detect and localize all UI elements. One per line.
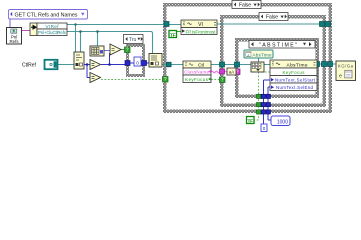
- wire more specific class to AbsTime node: [264, 64, 270, 66]
- svg-text:NumText.SelEnd: NumText.SelEnd: [276, 85, 314, 90]
- svg-text:0: 0: [136, 61, 139, 66]
- junction blue: [108, 63, 111, 66]
- tunnel ctl ref case3 left: [235, 62, 240, 67]
- wire Ctl ref out across case2 to case3: [211, 64, 251, 66]
- numeric constant 1000: [271, 116, 290, 126]
- ring label GET CTL Refs and Names: [9, 10, 88, 20]
- index array node: [149, 54, 162, 68]
- svg-text:AbsTime: AbsTime: [287, 62, 308, 68]
- wire pink ClassName string: [211, 71, 238, 73]
- subVI icon right: [336, 61, 356, 81]
- typecast node: [74, 52, 84, 69]
- svg-text:False: False: [266, 15, 278, 21]
- wire blue typecast out to T2: [84, 64, 90, 66]
- case structure 2 inner False frame: [220, 15, 326, 107]
- svg-text:CtlRef: CtlRef: [22, 63, 37, 69]
- svg-text:GET CTL Refs and Names: GET CTL Refs and Names: [15, 12, 78, 18]
- svg-text:TF: TF: [248, 118, 254, 124]
- svg-text:TF: TF: [170, 32, 176, 38]
- svg-text:VIRef: VIRef: [46, 24, 60, 29]
- wire index node to Ctl property node: [162, 64, 183, 66]
- svg-text:Pnl+CluCtlRefs: Pnl+CluCtlRefs: [38, 30, 67, 35]
- case1 label False: [232, 1, 261, 9]
- svg-text:FP.IsFrontmost: FP.IsFrontmost: [186, 29, 217, 34]
- selector tunnel case3 magenta: [235, 69, 241, 75]
- tunnel blue case4 right: [142, 61, 147, 66]
- selector tunnel case2 green: [220, 77, 226, 83]
- wire green dashed T3 to case1 selector: [101, 79, 163, 81]
- wire green KeyFocus out to case2 selector: [211, 79, 220, 81]
- tunnel blue2 case2 bottom: [266, 103, 270, 107]
- icon1 array node: [90, 46, 104, 56]
- case structure 3 ABSTIME frame: [235, 38, 319, 98]
- numeric constant inside case4: [134, 57, 141, 66]
- case structure 1 outer False frame: [163, 3, 332, 113]
- boolean constant TF top: [169, 31, 177, 39]
- svg-text:0: 0: [263, 126, 266, 131]
- to upper case icon: [227, 68, 236, 75]
- subVI Pnl Refs: [7, 28, 22, 45]
- wire VIRef teal top: [67, 25, 181, 53]
- numeric constant 0 small: [261, 124, 267, 132]
- wire blue down to T3: [87, 65, 90, 78]
- svg-text:NumText.SelStart: NumText.SelStart: [275, 77, 316, 82]
- tunnel blue2 case3 bottom: [266, 94, 270, 98]
- wire Pnl CluCtlRefs array teal: [67, 32, 153, 54]
- wire violet icon1 to T1: [104, 50, 111, 52]
- wire AbsTime ref out to subVI: [317, 63, 336, 65]
- junction on array wire: [96, 30, 99, 33]
- tunnel VI ref case2 right: [320, 22, 325, 27]
- tunnel blue2 case1 bottom: [266, 110, 270, 114]
- case4 label True: [124, 35, 144, 44]
- svg-text:e: e: [339, 74, 342, 80]
- junction on array wire: [79, 30, 82, 33]
- tunnel green case3 bottom: [257, 94, 261, 98]
- svg-text:AbsTime: AbsTime: [253, 53, 272, 58]
- svg-text:KeyFocus: KeyFocus: [283, 70, 306, 75]
- tunnel AbsTime ref case3 right: [315, 62, 320, 67]
- svg-text:KeyFocus: KeyFocus: [185, 77, 209, 82]
- tunnel AbsTime ref case1 right: [328, 62, 333, 67]
- tunnel green case1 bottom: [257, 110, 261, 114]
- tunnel pink case2 left: [220, 69, 225, 74]
- tunnel VI ref case1 right: [326, 22, 331, 27]
- svg-text:?: ?: [164, 77, 167, 83]
- tunnel ctl ref case1 left: [167, 62, 172, 67]
- tunnel blue1 case1 bottom: [261, 110, 265, 114]
- to more specific class node: [251, 62, 264, 72]
- tunnel blue case4 left: [125, 61, 130, 66]
- svg-text:KG/Ga: KG/Ga: [338, 64, 354, 69]
- wire green TF to FP.IsFrontmost: [177, 31, 182, 33]
- wire T1 out to selector: [121, 49, 125, 51]
- wire green dashed KeyFocus write chain bottom: [254, 72, 270, 120]
- svg-text:1000: 1000: [277, 119, 288, 125]
- tunnel blue1 case3 bottom: [261, 94, 265, 98]
- comparator T2: [90, 60, 101, 70]
- selector tunnel case1 green: [163, 77, 169, 83]
- svg-text:Refs: Refs: [9, 39, 19, 44]
- comparator T3: [90, 73, 101, 83]
- boolean constant TF bottom: [247, 117, 255, 125]
- case2 label False: [259, 13, 288, 21]
- wire pink subVI to invoke node: [22, 30, 31, 32]
- svg-text:?: ?: [221, 78, 224, 84]
- tunnel AbsTime ref case2 right: [322, 62, 327, 67]
- case structure 4 True frame: [126, 44, 145, 77]
- svg-text:"ABSTIME": "ABSTIME": [259, 43, 297, 49]
- tunnel blue1 case2 bottom: [261, 103, 265, 107]
- CtlRef refnum terminal: [45, 60, 58, 69]
- wire blue SelEnd chain: [268, 87, 271, 120]
- svg-text:A: A: [247, 54, 250, 58]
- property node VI: [181, 20, 217, 35]
- svg-text:ClassName: ClassName: [184, 70, 209, 75]
- svg-text:?: ?: [126, 48, 129, 54]
- wire CtlRef to typecast: [58, 64, 74, 66]
- wire blue inside case4 to index node: [130, 62, 149, 64]
- property node Ctl: [183, 61, 211, 83]
- junction blue: [86, 63, 89, 66]
- case3 label ABSTIME: [249, 41, 315, 49]
- tunnel VIRef case1 left: [164, 22, 169, 27]
- svg-text:False: False: [239, 3, 251, 9]
- invoke node VIRef PnlCluCtlRefs: [30, 23, 67, 36]
- svg-text:Tru: Tru: [129, 37, 137, 43]
- selector tunnel case4 green: [125, 47, 131, 53]
- tunnel ctl ref case2 left: [220, 62, 225, 67]
- wire blue SelStart chain: [264, 80, 271, 124]
- wire class constant to more specific class: [258, 58, 260, 62]
- wire violet ring to subVI: [9, 20, 11, 28]
- wire VI ref out across case2: [217, 23, 329, 25]
- wire blue T2 out to case4 tunnel: [101, 53, 125, 65]
- comparator T1: [110, 44, 121, 55]
- tunnel green case2 bottom: [257, 103, 261, 107]
- class specifier constant AbsTime: [244, 50, 273, 58]
- svg-text:aA: aA: [229, 70, 234, 75]
- property node AbsTime: [270, 60, 317, 91]
